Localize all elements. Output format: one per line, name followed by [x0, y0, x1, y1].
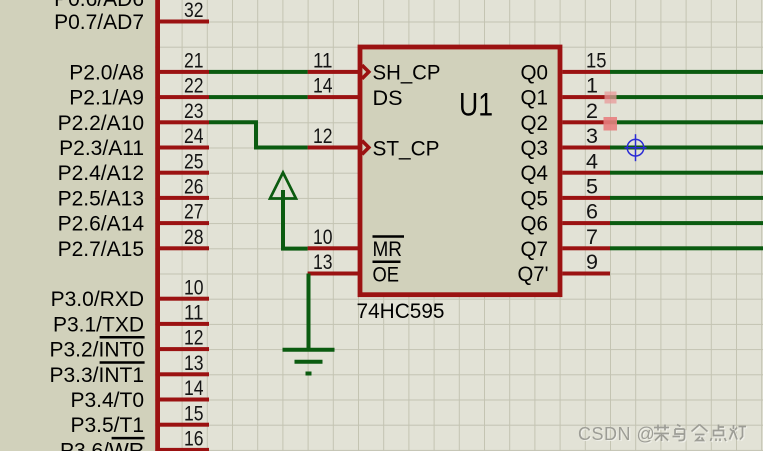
pin stub P3.0/RXD [160, 297, 210, 301]
wire VCC to MR [281, 247, 308, 251]
U1 clock symbol at ST_CP [362, 141, 369, 155]
U1 pin stub Q5 (pin 5) [562, 196, 610, 200]
pin label P2.2/A10 [58, 112, 144, 135]
svg-text:12: 12 [313, 125, 333, 148]
svg-text:26: 26 [184, 176, 204, 199]
U1 pin stub DS (pin 14) [308, 95, 359, 99]
wire Q1 output [610, 95, 763, 99]
svg-text:P2.6/A14: P2.6/A14 [58, 213, 145, 236]
svg-text:Q1: Q1 [521, 87, 549, 110]
svg-text:P3.5/T1: P3.5/T1 [70, 414, 144, 437]
pin stub P3.6/WR [160, 448, 210, 451]
svg-text:P2.3/A11: P2.3/A11 [59, 137, 144, 160]
svg-text:Q4: Q4 [521, 162, 549, 185]
wire Q0 output [610, 70, 763, 74]
svg-text:32: 32 [184, 0, 204, 22]
svg-text:21: 21 [184, 50, 204, 73]
svg-text:5: 5 [586, 176, 598, 199]
wire Q7 output [610, 246, 763, 250]
U1 pin stub Q2 (pin 2) [562, 120, 610, 124]
MCU 8051 body [0, 0, 160, 451]
pin label P3.3/INT1 [49, 363, 144, 387]
svg-text:ST_CP: ST_CP [373, 137, 440, 160]
svg-text:P2.2/A10: P2.2/A10 [58, 112, 144, 135]
pin stub P2.4/A12 [160, 171, 210, 175]
svg-text:Q5: Q5 [521, 187, 549, 210]
svg-text:22: 22 [184, 75, 204, 98]
U1 pin stub SH_CP (pin 11) [308, 70, 359, 74]
svg-text:CSDN @: CSDN @ [578, 424, 655, 444]
wire P2.2 to ST_CP [209, 122, 308, 147]
U1 pin stub Q7' (pin 9) [562, 272, 610, 276]
svg-text:MR: MR [373, 238, 403, 261]
wire Q2 output [610, 120, 763, 124]
svg-text:P2.4/A12: P2.4/A12 [58, 162, 144, 185]
svg-text:4: 4 [586, 150, 598, 173]
svg-text:13: 13 [313, 251, 333, 274]
svg-text:P2.5/A13: P2.5/A13 [58, 187, 144, 210]
svg-text:24: 24 [184, 125, 204, 148]
wire P2.1 to DS [209, 95, 308, 99]
svg-text:P3.1/TXD: P3.1/TXD [53, 313, 144, 336]
pin label P3.2/INT0 [49, 337, 144, 361]
pin stub P3.1/TXD [160, 322, 210, 326]
svg-text:13: 13 [184, 352, 204, 375]
svg-text:15: 15 [586, 50, 607, 73]
U1 pin name OE [373, 262, 401, 287]
svg-text:1: 1 [586, 75, 598, 98]
svg-text:P0.7/AD7: P0.7/AD7 [54, 11, 144, 34]
svg-text:7: 7 [586, 226, 598, 249]
svg-text:3: 3 [586, 125, 598, 148]
svg-text:P3.6/WR: P3.6/WR [60, 439, 144, 451]
svg-text:Q2: Q2 [521, 112, 549, 135]
pin label P2.7/A15 [58, 238, 144, 261]
pin stub P0.7/AD7 [160, 20, 210, 24]
svg-text:11: 11 [313, 50, 333, 73]
U1 pin name DS [373, 87, 403, 110]
svg-text:9: 9 [586, 251, 598, 274]
wire P2.0 to SH_CP [209, 70, 308, 74]
svg-text:Q6: Q6 [521, 213, 549, 236]
svg-text:P3.2/INT0: P3.2/INT0 [49, 339, 144, 362]
wire Q5 output [610, 196, 763, 200]
U1 pin stub ST_CP (pin 12) [308, 146, 359, 150]
svg-text:P2.0/A8: P2.0/A8 [69, 61, 144, 84]
pin label P3.5/T1 [70, 414, 144, 437]
junction marker at Q1 [605, 92, 617, 104]
pin label P0.6/AD6 [54, 0, 144, 11]
pin label P2.0/A8 [69, 61, 144, 84]
svg-text:U1: U1 [459, 87, 493, 123]
svg-text:DS: DS [373, 87, 403, 110]
svg-text:6: 6 [586, 201, 598, 224]
pin label P2.3/A11 [59, 137, 144, 160]
pin stub P3.5/T1 [160, 423, 210, 427]
wire Q4 output [610, 171, 763, 175]
svg-text:28: 28 [184, 226, 204, 249]
ground symbol [283, 350, 335, 374]
svg-text:SH_CP: SH_CP [373, 62, 441, 85]
U1 pin stub Q7 (pin 7) [562, 246, 610, 250]
svg-text:14: 14 [184, 377, 204, 400]
U1 pin stub OE (pin 13) [308, 272, 359, 276]
IC U1 74HC595 body [360, 47, 560, 295]
U1 pin name MR [373, 237, 405, 262]
svg-text:P2.7/A15: P2.7/A15 [58, 238, 144, 261]
U1 clock symbol at SH_CP [362, 65, 369, 79]
pin label P2.6/A14 [58, 213, 145, 236]
svg-text:10: 10 [313, 226, 333, 249]
svg-text:11: 11 [184, 302, 204, 325]
U1 pin name ST_CP [373, 137, 440, 160]
pin stub P2.6/A14 [160, 221, 210, 225]
pin label P3.6/WR [60, 438, 145, 451]
U1 pin stub MR (pin 10) [308, 246, 359, 250]
svg-text:12: 12 [184, 327, 204, 350]
svg-text:Q7': Q7' [518, 263, 549, 286]
cursor crosshair [625, 134, 647, 161]
pin stub P2.5/A13 [160, 196, 210, 200]
svg-text:P2.1/A9: P2.1/A9 [69, 87, 144, 110]
watermark CSDN @cainiaohuidiandeng [579, 425, 747, 445]
pin label P3.0/RXD [51, 288, 144, 311]
U1 pin stub Q3 (pin 3) [562, 146, 610, 150]
svg-text:Q7: Q7 [521, 238, 549, 261]
svg-text:P3.0/RXD: P3.0/RXD [51, 288, 144, 311]
U1 pin stub Q1 (pin 1) [562, 95, 610, 99]
svg-text:16: 16 [184, 428, 204, 451]
wire Q6 output [610, 221, 763, 225]
svg-text:74HC595: 74HC595 [357, 300, 445, 323]
pin stub P2.0/A8 [160, 70, 210, 74]
svg-text:23: 23 [184, 100, 204, 123]
svg-text:27: 27 [184, 201, 204, 224]
pin stub P2.1/A9 [160, 95, 210, 99]
pin label P3.4/T0 [70, 389, 144, 412]
wire OE to ground [307, 274, 311, 350]
wire Q3 output [610, 146, 763, 150]
junction marker at Q2 [604, 117, 618, 131]
pin label P0.7/AD7 [54, 11, 144, 34]
pin stub P3.4/T0 [160, 398, 210, 402]
pin stub P3.2/INT0 [160, 347, 210, 351]
svg-text:10: 10 [184, 276, 204, 299]
svg-text:2: 2 [586, 100, 598, 123]
U1 pin stub Q6 (pin 6) [562, 221, 610, 225]
pin label P2.1/A9 [69, 87, 144, 110]
power symbol VCC [270, 173, 296, 249]
U1 pin name SH_CP [373, 62, 441, 85]
svg-text:P3.3/INT1: P3.3/INT1 [49, 364, 144, 387]
svg-text:P0.6/AD6: P0.6/AD6 [54, 0, 144, 11]
svg-text:14: 14 [313, 75, 333, 98]
svg-text:Q3: Q3 [521, 137, 549, 160]
svg-text:Q0: Q0 [521, 61, 549, 84]
pin label P3.1/TXD [53, 313, 144, 336]
U1 pin stub Q0 (pin 15) [562, 70, 610, 74]
pin stub P3.3/INT1 [160, 372, 210, 376]
pin stub P2.3/A11 [160, 146, 210, 150]
pin stub P2.2/A10 [160, 120, 210, 124]
svg-text:25: 25 [184, 150, 204, 173]
pin label P2.5/A13 [58, 187, 144, 210]
svg-text:P3.4/T0: P3.4/T0 [70, 389, 144, 412]
svg-text:OE: OE [373, 263, 400, 286]
U1 pin stub Q4 (pin 4) [562, 171, 610, 175]
svg-text:15: 15 [184, 402, 204, 425]
pin label P2.4/A12 [58, 162, 144, 185]
pin stub P2.7/A15 [160, 246, 210, 250]
